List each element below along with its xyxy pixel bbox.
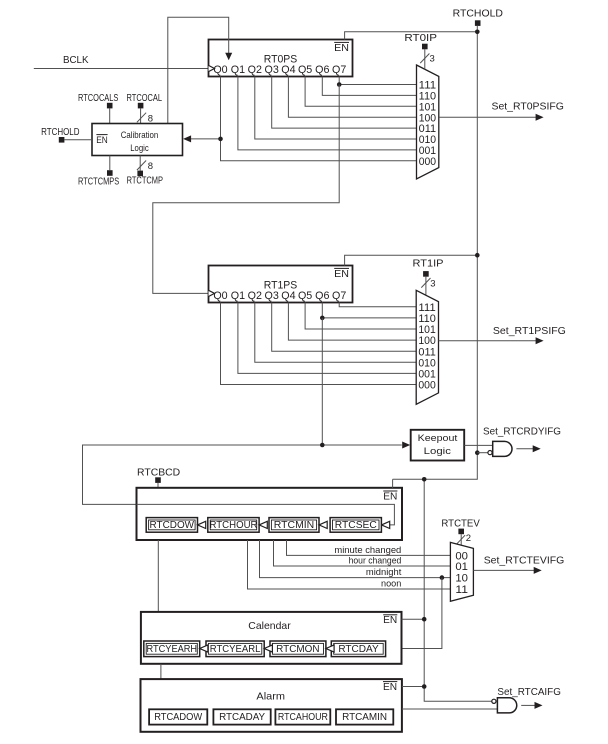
wire RT0PS Q6 to mux input 110 (322, 77, 416, 96)
svg-text:Q6: Q6 (315, 290, 329, 302)
svg-text:Q3: Q3 (265, 64, 279, 76)
wire RT1PS Q3 to mux input 011 (272, 303, 417, 352)
register RTCAMIN (336, 709, 393, 724)
svg-text:Alarm: Alarm (256, 690, 285, 702)
junction RTCHOLD / RT1PS EN (475, 253, 480, 258)
mux U2 (RT0IP interval select) (417, 65, 439, 179)
wire calendar to alarm (160, 664, 162, 679)
register RTCMON (270, 641, 326, 657)
svg-text:3: 3 (430, 54, 435, 65)
svg-text:Set_RT1PSIFG: Set_RT1PSIFG (493, 325, 566, 337)
junction RTCHOLD / RT0PS EN (475, 30, 480, 35)
svg-text:Logic: Logic (130, 143, 149, 153)
svg-text:Q1: Q1 (231, 64, 245, 76)
svg-text:RTCHOUR: RTCHOUR (210, 520, 258, 531)
pin EN of RT1PS (334, 268, 349, 280)
register RTCADAY (213, 709, 270, 724)
junction rail / alarm EN (422, 684, 427, 689)
svg-text:Calibration: Calibration (121, 130, 159, 140)
register RTCDOW (146, 518, 197, 533)
wire RT1PS EN to RTCHOLD (345, 255, 478, 265)
arrow into RT0PS clock (225, 53, 232, 61)
wire event "hour changed" (274, 540, 451, 566)
counter block RTCBCD (137, 488, 403, 540)
svg-text:noon: noon (381, 578, 401, 588)
wire 1Hz tick to keepout logic and RTCBCD clock (83, 442, 411, 505)
wire RT0PS Q4 to mux input 100 (288, 77, 416, 118)
junction on Q0 at calibration tap (218, 137, 223, 142)
clock chevron RT0PS (209, 65, 215, 71)
signal RTCTCMPS (78, 156, 119, 188)
wire RT0PS Q1 to mux input 001 (238, 77, 417, 150)
svg-text:000: 000 (419, 156, 436, 168)
wire RT0PS Q7 to mux input 111 (339, 77, 416, 85)
svg-text:10: 10 (455, 573, 468, 585)
wire calendar EN to rail (402, 618, 425, 620)
calibration logic U1 (92, 124, 183, 156)
signal RTCTCMP (8-bit) (127, 156, 163, 187)
register RTCHOUR (208, 518, 259, 533)
calendar block (141, 612, 402, 664)
wire RT1PS Q6 down to keepout/counter clock (321, 318, 323, 445)
svg-text:BCLK: BCLK (63, 54, 89, 66)
svg-text:EN: EN (334, 268, 349, 280)
wire RT1PS Q4 to mux input 100 (288, 303, 416, 341)
svg-text:EN: EN (383, 490, 397, 502)
mux U3 (RT1IP interval select) (416, 290, 438, 404)
svg-text:Set_RTCRDYIFG: Set_RTCRDYIFG (483, 426, 561, 438)
signal RTCBCD (137, 466, 181, 488)
svg-text:11: 11 (455, 584, 468, 596)
wire RT0PS Q3 to mux input 011 (272, 77, 417, 129)
svg-text:Q3: Q3 (265, 290, 279, 302)
svg-text:Q7: Q7 (332, 64, 346, 76)
pin EN of RT0PS (334, 42, 349, 54)
prescaler RT0PS (209, 40, 353, 77)
wire Q0 feedback to calibration logic (183, 135, 220, 142)
svg-text:RTCAMIN: RTCAMIN (342, 712, 387, 723)
svg-text:01: 01 (455, 561, 468, 573)
wire RTCHOLD to inverted gate input (477, 452, 488, 454)
register RTCSEC (330, 518, 381, 533)
svg-text:2: 2 (466, 533, 471, 544)
svg-text:RT0IP: RT0IP (404, 32, 437, 44)
svg-text:EN: EN (383, 614, 397, 626)
wire RT0PS Q7 to RT1PS clock (153, 85, 339, 294)
svg-text:Keepout: Keepout (418, 433, 458, 444)
output Set_RT0PSIFG (439, 100, 564, 120)
svg-text:RTCTCMP: RTCTCMP (127, 175, 163, 187)
svg-text:RTCOCAL: RTCOCAL (127, 92, 163, 104)
svg-text:Q1: Q1 (231, 290, 245, 302)
svg-text:Q5: Q5 (298, 290, 312, 302)
wire RT0PS EN to RTCHOLD (345, 32, 477, 40)
svg-text:RTCMON: RTCMON (276, 644, 319, 655)
svg-text:RTCADOW: RTCADOW (154, 712, 203, 723)
svg-text:Q6: Q6 (315, 64, 329, 76)
wire RT0PS Q0 to mux input 000 (221, 77, 417, 161)
wire event "midnight" (260, 540, 451, 578)
svg-text:EN: EN (383, 681, 397, 693)
alarm block (141, 679, 402, 732)
svg-text:Q7: Q7 (332, 290, 346, 302)
wire RTCHOLD vertical rail (393, 26, 478, 479)
wire RT1PS Q5 to mux input 101 (305, 303, 416, 330)
pin EN of calibration logic (96, 135, 108, 145)
svg-text:RTCYEARL: RTCYEARL (210, 644, 261, 655)
wire EN branch rail (424, 479, 492, 701)
svg-text:Q2: Q2 (248, 64, 262, 76)
carry arrow into register (264, 645, 272, 652)
svg-text:midnight: midnight (366, 567, 402, 577)
output Set_RTCTEVIFG (473, 555, 564, 574)
svg-text:Set_RT0PSIFG: Set_RT0PSIFG (492, 100, 564, 112)
output Set_RT1PSIFG (439, 325, 566, 344)
signal RTCOCALS (78, 92, 118, 124)
signal RT1IP (3-bit select) (413, 257, 444, 294)
svg-text:RTCSEC: RTCSEC (335, 520, 377, 531)
svg-text:EN: EN (96, 135, 108, 145)
signal RTCHOLD (top) (453, 8, 504, 26)
signal RTCTEV (2-bit select) (441, 518, 479, 546)
svg-text:RT1IP: RT1IP (413, 257, 444, 269)
svg-text:Set_RTCTEVIFG: Set_RTCTEVIFG (484, 555, 565, 567)
svg-text:Q4: Q4 (281, 64, 295, 76)
junction rail / calendar EN (422, 617, 427, 622)
svg-text:RTCADAY: RTCADAY (219, 712, 265, 723)
carry arrow into register (319, 521, 327, 528)
wire RT1PS Q7 to mux input 111 (339, 303, 416, 307)
svg-text:RTCYEARH: RTCYEARH (147, 644, 198, 655)
wire RTCBCD EN riser (392, 479, 394, 488)
carry arrow into register (200, 645, 208, 652)
register RTCADOW (149, 709, 207, 724)
svg-text:Q0: Q0 (213, 64, 227, 76)
svg-text:RTCDAY: RTCDAY (338, 644, 379, 655)
wire calibration output to RT0PS clock (168, 17, 229, 123)
keepout logic U4 (411, 430, 465, 461)
register RTCDAY (331, 641, 385, 657)
svg-text:Q5: Q5 (298, 64, 312, 76)
junction RTCHOLD / gate input (475, 450, 480, 455)
signal RTCOCAL (8-bit) (127, 92, 163, 125)
svg-text:000: 000 (418, 380, 435, 392)
svg-text:Logic: Logic (424, 446, 451, 457)
pin EN of calendar (383, 614, 397, 626)
carry arrow into register (326, 645, 334, 652)
junction on Q7 (337, 82, 342, 87)
svg-text:Set_RTCAIFG: Set_RTCAIFG (497, 686, 561, 698)
svg-text:RTCMIN: RTCMIN (274, 520, 315, 531)
wire RT0PS Q5 to mux input 101 (305, 77, 416, 107)
wire keepout output to AND gate (464, 444, 493, 446)
wire internal clock to RTCSEC (137, 504, 395, 528)
svg-text:RTCHOLD: RTCHOLD (453, 8, 504, 20)
wire BCLK (34, 68, 209, 70)
wire RT1PS Q1 to mux input 001 (238, 303, 416, 374)
junction EN rail top (422, 477, 427, 482)
svg-text:RTCDOW: RTCDOW (150, 520, 195, 531)
register RTCYEARL (206, 641, 264, 657)
junction on RT1PS Q6 (320, 316, 325, 321)
svg-text:Q4: Q4 (281, 290, 295, 302)
svg-text:Calendar: Calendar (248, 620, 291, 632)
mux U5 (RTCTEV event select) (450, 542, 473, 601)
svg-text:EN: EN (334, 42, 349, 54)
svg-text:RTCTEV: RTCTEV (441, 518, 479, 530)
clock chevron RT1PS (209, 290, 215, 296)
output Set_RTCRDYIFG (483, 426, 561, 453)
svg-text:Q0: Q0 (213, 290, 227, 302)
and-gate G1 (RTCRDY) (488, 441, 512, 456)
junction midnight / RTCDAY feed (440, 575, 445, 580)
carry arrow into register (198, 521, 206, 528)
svg-text:RTCHOLD: RTCHOLD (41, 126, 80, 138)
wire event "minute changed" (287, 540, 451, 555)
wire RTCDOW to calendar (157, 540, 159, 612)
output Set_RTCAIFG (497, 686, 561, 709)
pin EN of alarm (383, 681, 397, 693)
junction tick / keepout branch (320, 443, 325, 448)
wire RT1PS Q6 to mux input 110 (322, 303, 416, 318)
svg-text:RTCTCMPS: RTCTCMPS (78, 176, 119, 188)
svg-text:3: 3 (430, 279, 435, 290)
signal RT0IP (3-bit select) (404, 32, 437, 69)
signal RTCHOLD (left) (41, 126, 92, 143)
carry arrow into register (259, 521, 267, 528)
wire RT0PS Q2 to mux input 010 (255, 77, 417, 140)
register RTCYEARH (144, 641, 200, 657)
and-gate G2 (RTCA) (492, 698, 517, 713)
svg-text:RTCOCALS: RTCOCALS (78, 92, 118, 104)
register RTCMIN (269, 518, 319, 533)
svg-text:Q2: Q2 (248, 290, 262, 302)
register RTCAHOUR (275, 709, 330, 724)
svg-text:8: 8 (148, 161, 153, 172)
wire alarm EN to rail (402, 686, 424, 688)
wire RT1PS Q0 to mux input 000 (221, 303, 417, 385)
wire alarm match to AND gate (402, 708, 498, 710)
svg-text:hour changed: hour changed (349, 556, 402, 566)
svg-text:minute changed: minute changed (334, 545, 401, 555)
wire RT1PS Q2 to mux input 010 (255, 303, 416, 363)
wire midnight to RTCDAY (386, 578, 442, 653)
prescaler RT1PS (209, 266, 353, 303)
svg-text:RTCAHOUR: RTCAHOUR (278, 712, 328, 723)
svg-text:RTCBCD: RTCBCD (137, 466, 181, 478)
pin EN of RTCBCD (383, 490, 397, 502)
wire event "noon" (248, 540, 451, 589)
